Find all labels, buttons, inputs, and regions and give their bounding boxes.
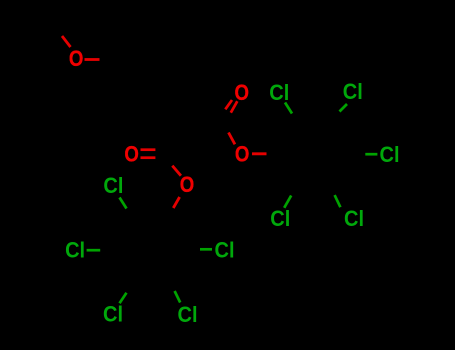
svg-text:Cl: Cl: [269, 80, 289, 105]
svg-text:Cl: Cl: [178, 302, 198, 327]
bond Cl right stub: [200, 248, 212, 251]
bond O-aryl (red half): [85, 58, 100, 61]
bond Cl bottom-left stub: [284, 196, 291, 208]
bond Cl left stub: [87, 249, 101, 252]
double bond C=O upper, line 1: [225, 100, 232, 109]
svg-text:O: O: [180, 172, 195, 197]
svg-text:O: O: [69, 46, 84, 71]
svg-text:Cl: Cl: [343, 79, 363, 104]
double bond C=O upper, line 2: [231, 101, 238, 113]
svg-text:Cl: Cl: [270, 206, 290, 231]
bond Cl top stub: [120, 198, 127, 209]
bond C-O ester lower (red half): [172, 166, 181, 176]
bond Cl right stub: [365, 153, 377, 156]
svg-text:Cl: Cl: [215, 237, 235, 262]
bond Cl bottom-right stub: [335, 195, 341, 207]
bond Cl bottom-left stub: [120, 293, 127, 304]
bond Cl top-right stub: [340, 104, 348, 112]
svg-text:Cl: Cl: [103, 173, 123, 198]
svg-text:Cl: Cl: [344, 206, 364, 231]
bond O-ring left (red half): [173, 197, 179, 208]
bond Cl top-left stub: [285, 103, 292, 114]
double bond C=O lower, line 1: [141, 148, 156, 151]
svg-text:Cl: Cl: [103, 301, 123, 326]
svg-text:O: O: [124, 141, 139, 166]
svg-text:Cl: Cl: [380, 142, 400, 167]
svg-text:Cl: Cl: [65, 238, 85, 263]
bond C-O ester upper (red half): [229, 133, 235, 145]
bond CH3-O (red half): [62, 36, 71, 47]
bond Cl bottom-right stub: [175, 291, 181, 303]
double bond C=O lower, line 2: [141, 156, 156, 159]
bond O-ring right (red half): [252, 152, 267, 155]
svg-text:O: O: [235, 142, 250, 167]
